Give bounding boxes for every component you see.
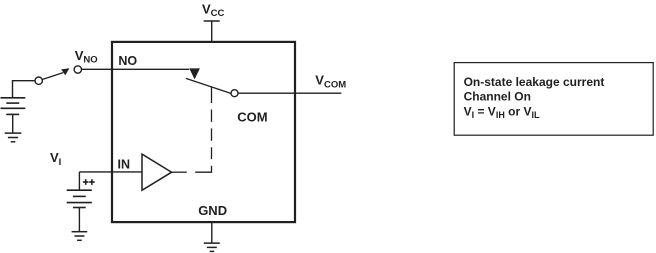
wire B2 to ground: [78, 208, 80, 232]
switch lever: [186, 78, 231, 93]
buffer amplifier A1: [142, 154, 172, 190]
switch pivot triangle: [189, 68, 200, 79]
battery B1 plate short bottom: [6, 113, 19, 115]
battery B1 plate long: [1, 107, 26, 109]
IC outline box U1: [112, 42, 295, 222]
battery B2 plate long top: [67, 189, 92, 191]
svg-text:VI: VI: [50, 150, 61, 168]
wire IN (V_I source to buffer input): [79, 171, 142, 173]
plus marks: [83, 179, 95, 185]
wire B1 to ground: [12, 114, 14, 132]
svg-text:VCC: VCC: [202, 1, 225, 19]
battery B2 plate long: [67, 202, 92, 204]
svg-text:On-state leakage current: On-state leakage current: [464, 75, 605, 89]
buffer output wire: [172, 171, 187, 173]
svg-text:NO: NO: [118, 54, 137, 68]
wire V_I source down to battery B2: [78, 172, 80, 190]
battery B2 plate short: [73, 195, 86, 197]
COM circle: [231, 90, 238, 97]
wire GND stem below box: [211, 222, 213, 243]
dashed control line (buffer to switch): [195, 87, 211, 173]
svg-text:GND: GND: [198, 203, 227, 218]
svg-text:VCOM: VCOM: [315, 73, 346, 91]
wire NO (terminal to switch pivot): [82, 68, 189, 70]
switch S1 arrowhead: [61, 68, 69, 75]
svg-text:VI = VIH or VIL: VI = VIH or VIL: [464, 104, 540, 119]
battery B1 plate short: [6, 102, 19, 104]
ground below B2: [72, 232, 88, 241]
svg-text:IN: IN: [118, 157, 131, 171]
wire COM output: [238, 92, 341, 94]
battery B1 plate long top: [1, 97, 26, 99]
svg-text:Channel On: Channel On: [464, 90, 531, 104]
battery B2 plate short bottom: [73, 207, 86, 209]
ground below B1: [5, 133, 22, 142]
terminal circle V_NO: [74, 66, 81, 73]
ground below box: [204, 243, 220, 251]
annotation box: [454, 63, 653, 136]
svg-text:COM: COM: [237, 109, 267, 124]
wire battery B1 to switch: [13, 81, 36, 98]
switch S1 pole circle: [35, 77, 42, 84]
Vcc stem wire: [211, 21, 213, 42]
svg-text:VNO: VNO: [75, 48, 98, 66]
Vcc supply bar: [204, 20, 220, 22]
switch S1 blade: [42, 73, 63, 80]
